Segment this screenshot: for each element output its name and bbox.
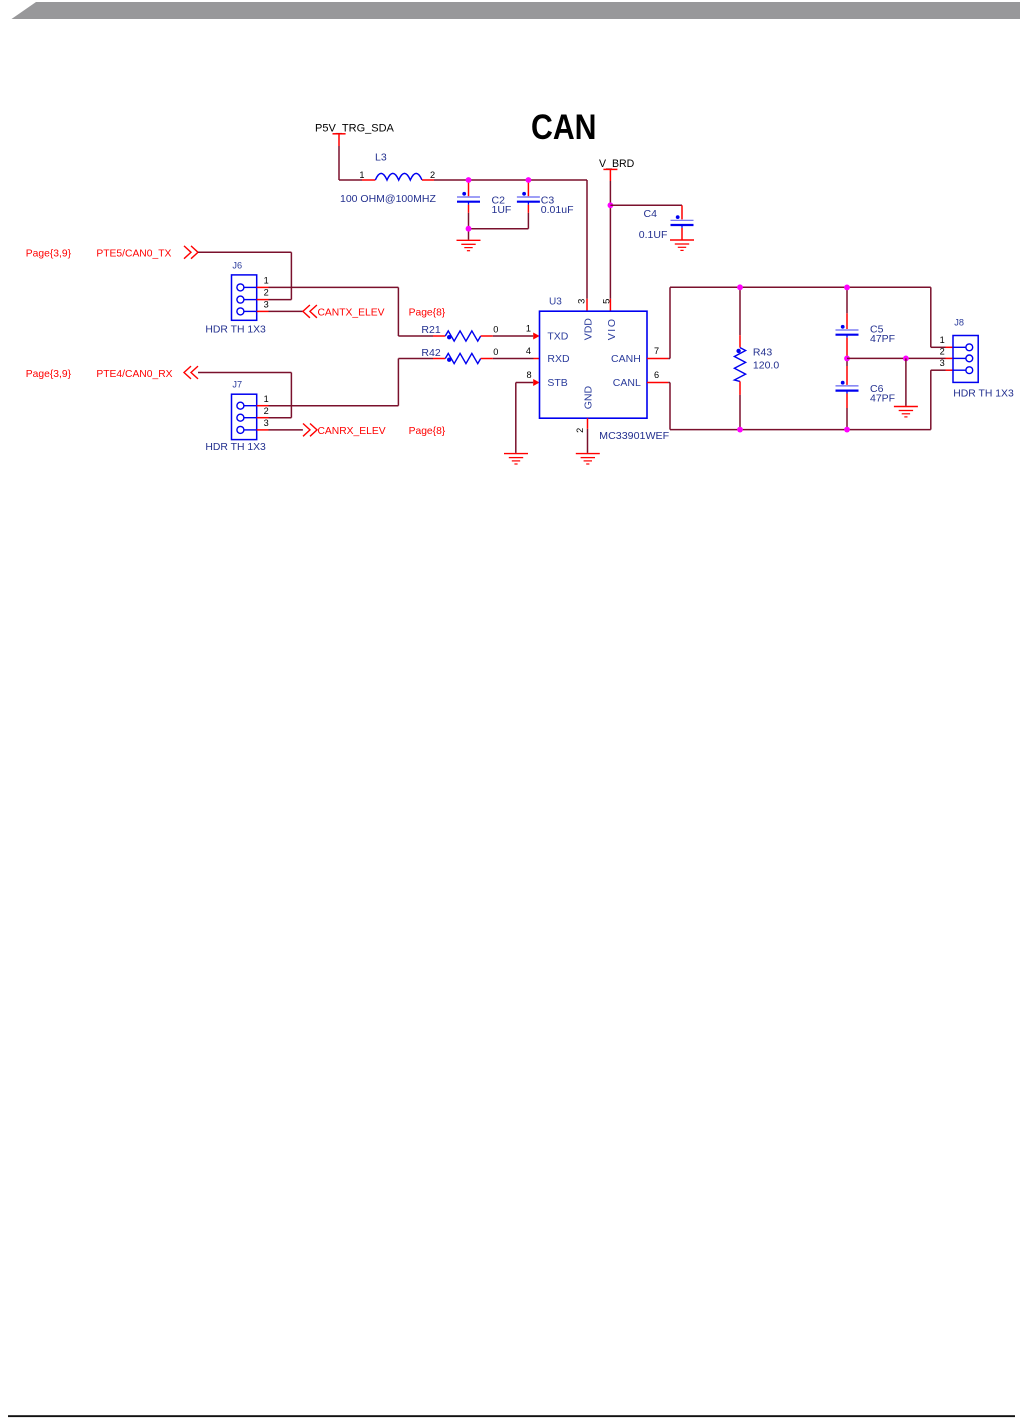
svg-text:CANTX_ELEV: CANTX_ELEV <box>318 307 385 318</box>
svg-text:R42: R42 <box>421 347 440 359</box>
svg-text:PTE5/CAN0_TX: PTE5/CAN0_TX <box>96 249 171 260</box>
svg-text:0.1UF: 0.1UF <box>639 229 668 241</box>
svg-text:Page{3,9}: Page{3,9} <box>26 369 72 380</box>
svg-text:J7: J7 <box>232 380 242 390</box>
svg-text:Page{8}: Page{8} <box>409 307 446 318</box>
svg-text:VIO: VIO <box>606 317 618 340</box>
svg-text:L3: L3 <box>375 152 387 164</box>
svg-text:0: 0 <box>493 347 498 357</box>
svg-text:3: 3 <box>940 358 945 368</box>
svg-text:CANH: CANH <box>611 353 641 365</box>
svg-text:Page{8}: Page{8} <box>409 426 446 437</box>
svg-text:HDR TH 1X3: HDR TH 1X3 <box>953 389 1014 400</box>
svg-text:R43: R43 <box>753 346 772 358</box>
svg-text:3: 3 <box>576 299 587 304</box>
svg-text:HDR TH 1X3: HDR TH 1X3 <box>205 442 266 453</box>
svg-text:1UF: 1UF <box>492 204 512 216</box>
svg-text:J8: J8 <box>954 318 964 328</box>
svg-text:1: 1 <box>264 394 269 404</box>
svg-text:J6: J6 <box>232 260 242 270</box>
svg-text:4: 4 <box>526 346 531 356</box>
svg-text:3: 3 <box>264 418 269 428</box>
svg-text:Page{3,9}: Page{3,9} <box>26 249 72 260</box>
svg-text:PTE4/CAN0_RX: PTE4/CAN0_RX <box>96 369 172 380</box>
svg-text:MC33901WEF: MC33901WEF <box>599 430 669 442</box>
svg-text:TXD: TXD <box>547 331 568 343</box>
svg-text:3: 3 <box>264 300 269 310</box>
svg-text:V_BRD: V_BRD <box>599 158 635 170</box>
svg-text:CAN: CAN <box>531 107 597 147</box>
svg-text:VDD: VDD <box>583 318 595 341</box>
svg-text:0: 0 <box>493 324 498 334</box>
svg-text:5: 5 <box>601 299 612 304</box>
svg-text:2: 2 <box>264 406 269 416</box>
svg-text:1: 1 <box>359 170 364 180</box>
svg-text:HDR TH 1X3: HDR TH 1X3 <box>205 325 266 336</box>
svg-text:R21: R21 <box>421 324 440 336</box>
svg-text:CANL: CANL <box>613 377 641 389</box>
svg-text:2: 2 <box>264 288 269 298</box>
svg-text:47PF: 47PF <box>870 333 895 345</box>
svg-text:1: 1 <box>940 335 945 345</box>
svg-text:GND: GND <box>583 386 595 410</box>
svg-text:6: 6 <box>654 370 659 380</box>
svg-text:2: 2 <box>430 170 435 180</box>
svg-text:U3: U3 <box>549 297 562 308</box>
svg-text:1: 1 <box>526 324 531 334</box>
svg-text:C4: C4 <box>644 208 658 220</box>
svg-text:RXD: RXD <box>547 353 570 365</box>
svg-text:0.01uF: 0.01uF <box>541 204 574 216</box>
svg-text:8: 8 <box>526 370 531 380</box>
svg-text:2: 2 <box>575 428 585 433</box>
svg-text:120.0: 120.0 <box>753 359 779 371</box>
svg-text:47PF: 47PF <box>870 393 895 405</box>
svg-text:100 OHM@100MHZ: 100 OHM@100MHZ <box>340 193 436 205</box>
svg-text:1: 1 <box>264 276 269 286</box>
svg-text:P5V_TRG_SDA: P5V_TRG_SDA <box>315 123 395 135</box>
svg-text:7: 7 <box>654 346 659 356</box>
svg-text:2: 2 <box>940 346 945 356</box>
svg-text:STB: STB <box>547 377 567 389</box>
svg-text:CANRX_ELEV: CANRX_ELEV <box>318 426 386 437</box>
